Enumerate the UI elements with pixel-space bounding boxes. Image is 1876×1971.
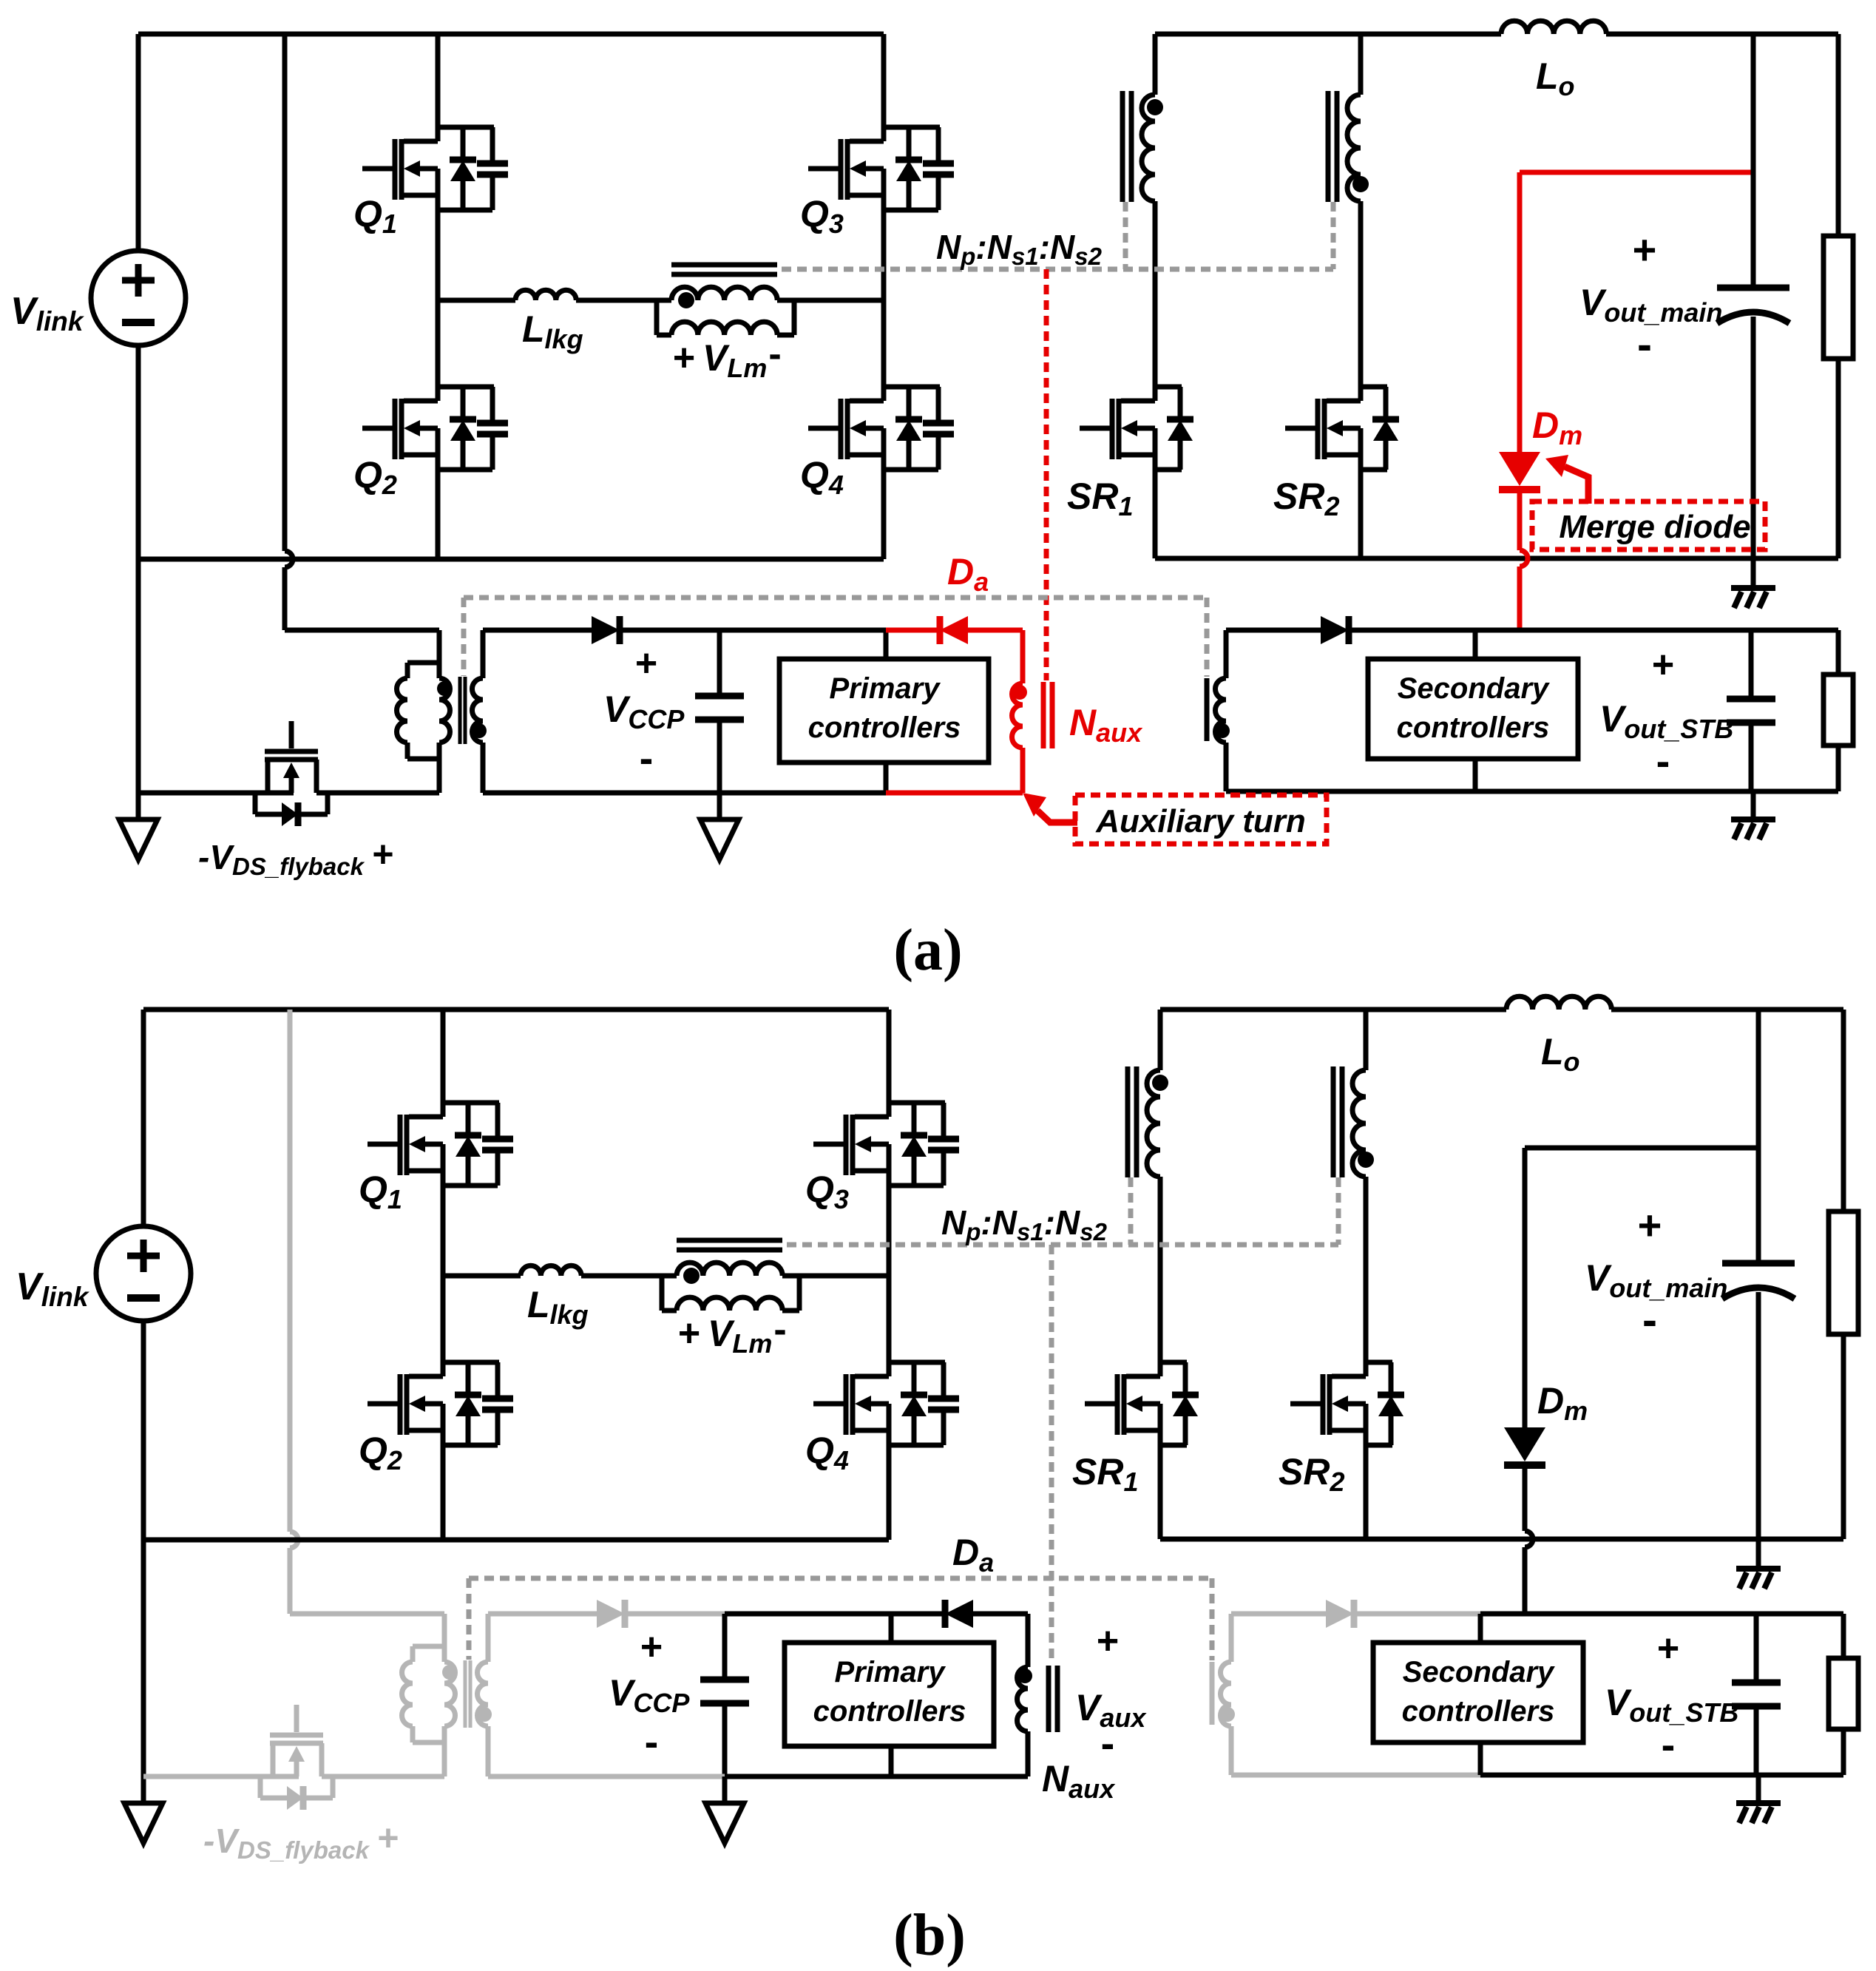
wire aux2 bottom (b): [1231, 1773, 1843, 1778]
wire box bottom stub (a): [884, 763, 889, 793]
wire Vlink lower leg (a): [136, 559, 141, 819]
svg-text:controllers: controllers: [808, 711, 961, 744]
wire winding to Q3 leg (a): [777, 298, 884, 303]
ground VCCP (a): [700, 793, 739, 859]
wire Da to Naux (a): [968, 630, 1023, 683]
svg-text:-: -: [1656, 737, 1670, 784]
voltage source Vlink (b): [96, 1010, 191, 1540]
transistor SR1 (b): [1085, 1362, 1199, 1539]
label VCCP (b): [609, 1626, 690, 1765]
ground STB (b): [1736, 1775, 1781, 1823]
transistor SR2 (a): [1285, 387, 1399, 558]
svg-text:Secondary: Secondary: [1398, 672, 1550, 705]
wire winding to Q3 leg (b): [782, 1274, 889, 1279]
polarity dot Naux (a): [1012, 685, 1027, 700]
label Llkg (b): [527, 1284, 589, 1330]
svg-text:Merge diode: Merge diode: [1559, 509, 1750, 545]
block Primary controllers (a): [779, 659, 989, 763]
polarity dot flyback secondary (b): [477, 1707, 492, 1722]
wire Llkg to winding (b): [581, 1274, 677, 1279]
polarity dot Ns2 (b): [1358, 1152, 1374, 1168]
label Q4 (a): [800, 454, 844, 500]
wire box2 bottom stub (a): [1473, 759, 1478, 791]
transistor Q3 (b): [813, 1010, 959, 1276]
polarity dot flyback secondary (a): [472, 723, 487, 738]
polarity dot Np (b): [683, 1268, 700, 1284]
winding Ns1 (b): [1147, 1010, 1160, 1376]
polarity dot Naux (b): [1017, 1669, 1032, 1683]
svg-text:+: +: [1638, 1202, 1662, 1248]
svg-text:+: +: [1657, 1627, 1679, 1670]
dashed link Np Ns1 Ns2 (a): [782, 202, 1333, 269]
voltage source Vlink (a): [91, 34, 186, 559]
svg-text:(b): (b): [893, 1903, 966, 1968]
wire top rail secondary right (b): [1611, 1007, 1843, 1012]
svg-text:Auxiliary turn: Auxiliary turn: [1095, 803, 1306, 839]
wire Vlink lower leg (b): [141, 1540, 146, 1803]
transistor Q1 (b): [368, 1010, 513, 1276]
ground secondary rail (b): [1736, 1539, 1781, 1589]
label Q2 (b): [359, 1430, 402, 1475]
label Da (b): [952, 1532, 994, 1578]
transformer core aux secondary (a): [1205, 678, 1210, 741]
winding Ns2 (a): [1347, 34, 1361, 401]
callout Merge diode arrow (a): [1545, 455, 1588, 504]
svg-text:Primary: Primary: [830, 672, 941, 705]
svg-text:controllers: controllers: [1397, 711, 1550, 744]
block Secondary controllers (a): [1368, 659, 1578, 759]
winding Ns1 (a): [1142, 34, 1155, 401]
wire flyback top (b): [290, 1614, 444, 1646]
diode Da (b): [945, 1600, 973, 1628]
wire top rail secondary right (a): [1606, 32, 1838, 37]
transformer core Np (b): [677, 1240, 782, 1250]
transistor flyback switch (b): [270, 1705, 323, 1776]
capacitor Vout_STB (a): [1727, 630, 1775, 791]
wire diode to VCCP (a): [620, 628, 719, 633]
label VLm (a): [673, 333, 782, 383]
wire box2 top stub (a): [1473, 630, 1478, 659]
transformer flyback primary (a): [397, 663, 450, 793]
wire top rail secondary left (b): [1160, 1007, 1506, 1012]
winding aux secondary (b): [1221, 1614, 1232, 1775]
label VDS_flyback (a): [198, 834, 394, 880]
transistor SR1 (a): [1080, 387, 1193, 558]
wire bridge mid left (a): [438, 298, 515, 303]
ground under Vlink (b): [124, 1803, 163, 1843]
label SR2 (a): [1273, 476, 1340, 521]
transistor SR2 (b): [1290, 1362, 1404, 1539]
winding Lm loop (a): [657, 300, 794, 335]
diode aux output (b): [1326, 1600, 1354, 1628]
transformer core flyback (a): [460, 677, 465, 744]
wire box top stub (a): [884, 630, 889, 659]
wire aux2 top right (b): [1354, 1612, 1480, 1617]
wire box2 top stub (b): [1478, 1614, 1483, 1643]
label Vaux (b): [1075, 1620, 1147, 1766]
label Np:Ns1:Ns2 (a): [936, 228, 1103, 270]
svg-text:+: +: [377, 1817, 399, 1859]
wire to Da (b): [891, 1612, 944, 1617]
transistor Q2 (a): [362, 300, 508, 559]
transistor Q4 (b): [813, 1276, 959, 1540]
wire VCCP to box (a): [719, 628, 886, 633]
transformer core Ns1 (a): [1122, 91, 1131, 202]
wire flyback top (a): [285, 630, 439, 663]
winding Lm loop (b): [662, 1276, 799, 1311]
inductor Lo (b): [1506, 996, 1611, 1010]
label Vout_STB (b): [1605, 1627, 1738, 1768]
label Lo (a): [1536, 55, 1575, 101]
polarity dot Ns1 (a): [1147, 99, 1163, 115]
wire aux bottom left (a): [483, 791, 719, 796]
wire Naux bottom (a): [886, 791, 1023, 796]
svg-text:+: +: [1652, 643, 1674, 686]
wire box2 bottom stub (b): [1478, 1742, 1483, 1775]
label VLm (b): [678, 1308, 787, 1359]
label SR1 (a): [1067, 476, 1134, 521]
wire top rail primary (b): [143, 1007, 889, 1012]
label Q1 (b): [359, 1169, 402, 1214]
transistor flyback switch (a): [265, 721, 318, 793]
block Primary controllers (b): [785, 1643, 994, 1746]
capacitor Vout_STB (b): [1732, 1614, 1781, 1775]
transformer flyback primary (b): [402, 1646, 456, 1776]
wire box bottom stub (b): [889, 1746, 894, 1776]
label Q4 (b): [805, 1430, 849, 1475]
diode flyback body (a): [255, 793, 328, 826]
resistor load STB (b): [1829, 1614, 1858, 1775]
wire diode to VCCP (b): [625, 1612, 725, 1617]
polarity dot Ns2 (a): [1352, 176, 1369, 192]
wire Dm top link (a): [1520, 170, 1753, 175]
resistor load STB (a): [1823, 630, 1853, 791]
diode flyback body (b): [260, 1776, 333, 1810]
transistor Q2 (b): [368, 1276, 513, 1540]
svg-text:+: +: [673, 337, 695, 379]
wire aux top left (a): [483, 628, 592, 633]
wire top rail secondary left (a): [1155, 32, 1501, 37]
transformer core Ns2 (a): [1328, 91, 1337, 202]
block Secondary controllers (b): [1373, 1643, 1583, 1742]
polarity dot Ns1 (b): [1152, 1075, 1168, 1091]
wire aux bottom mid (a): [719, 791, 886, 796]
capacitor Vout_main (b): [1722, 1010, 1795, 1539]
label figure (b): [893, 1903, 966, 1968]
capacitor Vout_main (a): [1717, 34, 1789, 558]
svg-text:-: -: [773, 1308, 786, 1351]
ground VCCP (b): [705, 1776, 744, 1843]
label SR1 (b): [1072, 1451, 1139, 1497]
wire VCCP to box (b): [725, 1612, 891, 1617]
label VDS_flyback (b): [203, 1817, 399, 1864]
wire bridge mid left (b): [443, 1274, 521, 1279]
diode Dm (a): [1499, 172, 1540, 629]
wire flyback tap vertical (b): [290, 1010, 298, 1614]
transistor Q4 (a): [808, 300, 954, 559]
label Vout_STB (a): [1599, 643, 1733, 784]
diode flyback output (b): [597, 1600, 625, 1628]
capacitor VCCP (b): [700, 1614, 749, 1776]
wire aux2 top main (b): [1480, 1612, 1843, 1617]
diode flyback output (a): [592, 616, 620, 644]
transformer core Naux (b): [1049, 1666, 1057, 1732]
svg-text:+: +: [678, 1312, 700, 1355]
wire Dm top link (b): [1525, 1146, 1758, 1151]
wire aux top left (b): [488, 1612, 597, 1617]
polarity dot flyback primary (b): [442, 1665, 457, 1680]
dashed link Naux core (a): [1044, 269, 1049, 680]
label Llkg (a): [522, 308, 583, 354]
winding flyback secondary (b): [478, 1614, 489, 1776]
callout Merge diode box (a): [1532, 501, 1765, 550]
svg-text:+: +: [635, 642, 657, 685]
transistor Q1 (a): [362, 34, 508, 300]
transformer core flyback (b): [465, 1660, 470, 1728]
dashed link Da line (a): [464, 598, 1207, 677]
wire Naux bottom (b): [891, 1774, 1028, 1779]
transformer core Ns2 (b): [1333, 1066, 1342, 1177]
label Lo (b): [1541, 1031, 1580, 1077]
dashed link Da line (b): [469, 1578, 1212, 1660]
winding Np top (a): [671, 287, 777, 300]
svg-text:-: -: [1101, 1720, 1115, 1766]
svg-text:+: +: [372, 834, 393, 875]
wire bottom rail primary (b): [143, 1538, 889, 1543]
winding Naux (b): [1017, 1667, 1029, 1776]
svg-text:-: -: [645, 1718, 659, 1765]
wire bottom rail secondary (b): [1160, 1537, 1843, 1542]
polarity dot aux secondary (b): [1220, 1707, 1235, 1722]
wire Da to Naux (b): [973, 1614, 1028, 1667]
winding Np top (b): [677, 1262, 782, 1276]
wire bottom rail primary (a): [138, 557, 884, 562]
capacitor VCCP (a): [695, 630, 744, 793]
ground under Vlink (a): [119, 819, 158, 859]
label Vout_main (b): [1585, 1202, 1727, 1345]
polarity dot flyback primary (a): [437, 681, 452, 696]
transistor Q3 (a): [808, 34, 954, 300]
ground secondary rail (a): [1731, 558, 1775, 608]
callout Auxiliary turn arrow (a): [1023, 793, 1077, 822]
winding flyback secondary (a): [473, 630, 484, 793]
wire to Da (a): [886, 628, 938, 633]
svg-text:-: -: [768, 333, 781, 376]
label Naux (a): [1069, 702, 1143, 748]
wire aux2 top left (b): [1231, 1612, 1326, 1617]
label VCCP (a): [603, 642, 685, 781]
wire flyback tap vertical (a): [285, 34, 293, 630]
dashed link Np Ns1 Ns2 (b): [787, 1177, 1338, 1245]
transformer core Naux (a): [1043, 682, 1052, 748]
label Q3 (a): [800, 193, 844, 239]
svg-text:Primary: Primary: [835, 1656, 947, 1688]
wire flyback source (b): [143, 1774, 299, 1779]
transformer core aux secondary (b): [1210, 1662, 1215, 1725]
polarity dot Np (a): [678, 292, 694, 308]
inductor Llkg (a): [515, 290, 576, 300]
label Q2 (a): [353, 454, 397, 500]
label Da (a): [947, 551, 989, 597]
svg-text:-: -: [640, 734, 654, 781]
svg-text:-: -: [1637, 320, 1652, 369]
winding Ns2 (b): [1352, 1010, 1366, 1376]
label figure (a): [893, 918, 962, 983]
wire flyback drain (b): [322, 1774, 444, 1779]
wire aux2 top left (a): [1226, 628, 1321, 633]
svg-text:(a): (a): [893, 918, 962, 983]
svg-text:+: +: [640, 1626, 663, 1669]
svg-text:+: +: [1097, 1620, 1119, 1663]
label Np:Ns1:Ns2 (b): [941, 1203, 1108, 1245]
wire aux2 top right (a): [1349, 628, 1475, 633]
resistor load main (a): [1823, 34, 1853, 558]
label Vout_main (a): [1579, 226, 1722, 369]
winding aux secondary (a): [1216, 630, 1227, 791]
dashed link Naux core (b): [1049, 1245, 1054, 1664]
wire Llkg to winding (a): [576, 298, 671, 303]
inductor Llkg (b): [521, 1265, 581, 1276]
svg-text:+: +: [1633, 226, 1657, 273]
svg-text:-: -: [1642, 1295, 1657, 1345]
label SR2 (b): [1279, 1451, 1345, 1497]
wire top rail primary (a): [138, 32, 884, 37]
resistor load main (b): [1829, 1010, 1858, 1539]
label Naux (b): [1042, 1758, 1116, 1804]
wire aux2 bottom (a): [1226, 789, 1838, 794]
label Vlink (a): [10, 290, 85, 337]
svg-text:controllers: controllers: [1402, 1695, 1555, 1728]
transformer core Ns1 (b): [1128, 1066, 1137, 1177]
winding Naux (a): [1012, 683, 1023, 793]
label Q1 (a): [353, 193, 397, 239]
label Dm (b): [1537, 1380, 1588, 1426]
label Vlink (b): [16, 1265, 90, 1312]
svg-text:-: -: [1662, 1721, 1676, 1768]
ground STB (a): [1731, 791, 1775, 839]
polarity dot aux secondary (a): [1215, 723, 1230, 738]
wire aux bottom left (b): [488, 1774, 725, 1779]
diode aux output (a): [1321, 616, 1349, 644]
wire flyback drain (a): [316, 791, 439, 796]
diode Da (a): [940, 616, 968, 644]
inductor Lo (a): [1501, 21, 1606, 34]
svg-text:Secondary: Secondary: [1403, 1656, 1555, 1688]
wire bottom rail secondary (a): [1155, 556, 1838, 561]
diode Dm (b): [1504, 1148, 1545, 1612]
wire aux bottom mid (b): [725, 1774, 891, 1779]
callout Auxiliary turn box (a): [1075, 795, 1327, 844]
label Q3 (b): [805, 1169, 849, 1214]
wire flyback source (a): [138, 791, 294, 796]
wire aux2 top main (a): [1475, 628, 1838, 633]
wire box top stub (b): [889, 1614, 894, 1643]
svg-text:controllers: controllers: [813, 1695, 966, 1728]
label Dm (a): [1532, 405, 1582, 450]
transformer core Np (a): [671, 265, 777, 274]
